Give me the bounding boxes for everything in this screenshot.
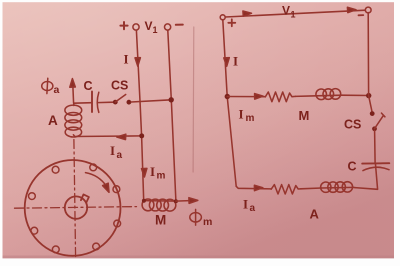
centerline vertical (dash-dot) — [74, 140, 76, 259]
inductor A (right circuit) — [322, 186, 354, 189]
capacitor C (right circuit) — [362, 162, 389, 164]
inductor M (right circuit) — [317, 94, 343, 97]
arrow I (current into left circuit) — [135, 58, 140, 66]
label V1 (left circuit) — [145, 19, 158, 35]
minus sign (right circuit) — [359, 14, 364, 16]
coil M end dots — [142, 199, 146, 203]
wire capacitor down to corner and to coil A — [355, 163, 378, 189]
wire junction to switch contact — [369, 96, 372, 112]
svg-text:V: V — [145, 19, 153, 33]
terminal + (right circuit) — [220, 15, 225, 20]
svg-text:V: V — [282, 4, 290, 18]
resistor (aux winding R) — [271, 185, 301, 194]
right vertical wire upper — [367, 13, 369, 96]
junction dot (right, M node) — [366, 93, 371, 98]
arrow Ia (right circuit) — [254, 185, 262, 190]
shaft keyway — [81, 194, 89, 202]
label A (right circuit) — [310, 207, 320, 222]
wire inductor to right line — [342, 94, 369, 96]
bottom wire Ia branch — [236, 186, 271, 189]
label A (left circuit) — [48, 113, 58, 128]
centerline horizontal (dash-dot) — [15, 207, 137, 209]
coil M (main winding, horizontal) — [144, 200, 176, 203]
stator circle — [25, 160, 121, 256]
label C (left circuit) — [84, 79, 93, 93]
junction dot on right vertical line — [169, 97, 174, 102]
terminal + (left circuit) — [133, 24, 139, 30]
wire: right vertical line from - terminal down to M coil — [168, 30, 176, 201]
svg-text:I: I — [150, 164, 155, 179]
switch CS contact dot — [126, 100, 131, 105]
svg-text:M: M — [299, 108, 310, 123]
svg-text:A: A — [310, 207, 320, 222]
svg-text:A: A — [48, 113, 58, 128]
arrow Phi-m (main flux, right) — [176, 200, 190, 203]
label Ia (left circuit) — [110, 143, 123, 161]
switch CS pivot dot (right circuit) — [372, 126, 377, 131]
label Im (right circuit) — [239, 107, 255, 125]
switch CS (left circuit): pivot dot — [113, 100, 118, 105]
label V1 (right circuit) — [282, 4, 296, 20]
svg-text:I: I — [239, 107, 244, 122]
svg-text:M: M — [155, 213, 166, 228]
wire: coil A top to capacitor — [74, 102, 92, 105]
label Phi-m — [190, 209, 202, 225]
svg-text:C: C — [84, 79, 93, 93]
label CS (left circuit) — [111, 79, 128, 93]
arrow I (right circuit, down) — [224, 58, 230, 67]
wire: switch to right vertical line — [131, 100, 171, 102]
arrow Im (right circuit) — [255, 94, 263, 100]
wire Im branch left part — [227, 96, 265, 98]
arrow Im (on left vertical line, down) — [142, 168, 147, 177]
svg-text:CS: CS — [344, 118, 361, 132]
label Phi-a — [42, 78, 53, 93]
svg-text:1: 1 — [153, 25, 158, 35]
left vertical wire (right circuit) — [223, 20, 236, 187]
junction dot (left, Im node) — [225, 94, 230, 99]
svg-text:m: m — [203, 216, 212, 228]
wire: capacitor to switch pivot — [97, 101, 113, 103]
shaft circle — [65, 196, 87, 218]
label M (right circuit) — [299, 108, 310, 123]
svg-text:CS: CS — [111, 79, 128, 93]
wire pivot to capacitor — [374, 131, 377, 164]
switch CS arm (right circuit) — [375, 113, 385, 129]
label Ia (right circuit) — [243, 197, 256, 215]
label M (left circuit) — [155, 213, 166, 228]
switch CS contact dot (right circuit) — [370, 111, 375, 116]
svg-text:m: m — [246, 113, 255, 124]
rotor bar circles — [29, 164, 121, 253]
wire to inductor M — [296, 95, 317, 98]
terminal - (right circuit) — [365, 7, 371, 13]
svg-text:I: I — [243, 197, 248, 212]
svg-text:a: a — [250, 203, 256, 214]
label Im (left circuit) — [150, 164, 166, 182]
wire: left vertical line from + terminal down to M coil — [136, 30, 143, 200]
rotation arrow (clockwise arc) — [86, 173, 107, 187]
svg-text:1: 1 — [291, 10, 296, 20]
svg-text:a: a — [117, 150, 123, 161]
label C (right circuit) — [348, 160, 357, 174]
top wire with V1 — [225, 10, 365, 17]
wire Ia: coil A bottom to left vertical line — [73, 135, 141, 137]
arrow Phi-a (aux flux, up) — [72, 82, 75, 103]
crease line — [192, 27, 195, 172]
junction dot on left vertical line — [139, 133, 144, 138]
wire inductor A to corner — [354, 186, 356, 188]
wire to inductor A — [301, 187, 322, 190]
label I (right circuit) — [233, 54, 238, 69]
svg-text:a: a — [54, 84, 60, 96]
svg-text:I: I — [124, 52, 129, 67]
svg-text:m: m — [157, 171, 166, 182]
capacitor C (left circuit) — [91, 92, 93, 113]
label I (left circuit) — [124, 52, 129, 67]
resistor (main winding R) — [265, 92, 295, 102]
terminal - (left circuit) — [165, 24, 171, 30]
arrow on top wire (right) — [347, 7, 356, 12]
arrow on top wire (left) — [243, 11, 252, 16]
plus sign (left supply) — [120, 22, 127, 29]
plus sign (right circuit) — [228, 19, 235, 26]
svg-text:I: I — [110, 143, 115, 158]
svg-text:I: I — [233, 54, 238, 69]
minus sign (left supply) — [176, 24, 183, 26]
switch CS arm — [115, 95, 125, 103]
coil A (auxiliary winding, vertical) — [73, 103, 75, 105]
label CS (right circuit) — [344, 118, 361, 132]
svg-text:C: C — [348, 160, 357, 174]
arrow Ia (points left toward coil A) — [117, 134, 126, 139]
